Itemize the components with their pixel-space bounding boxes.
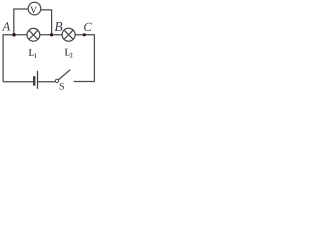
wire battery to switch	[38, 81, 55, 83]
svg-text:V: V	[30, 6, 37, 16]
voltmeter U1 circle	[28, 2, 41, 15]
wire top-left corner to lamp L1	[3, 35, 27, 82]
node A junction dot	[12, 33, 16, 37]
lamp L1 symbol	[27, 28, 40, 41]
switch S lever	[58, 70, 70, 80]
svg-text:B: B	[54, 19, 62, 34]
wire voltmeter left to corner	[14, 9, 28, 34]
svg-text:C: C	[83, 20, 92, 34]
node B junction dot	[50, 33, 53, 36]
node C junction dot	[83, 33, 86, 36]
wire switch to bottom-right corner	[74, 81, 95, 83]
svg-text:A: A	[2, 20, 11, 34]
svg-text:L1: L1	[29, 48, 37, 60]
battery BT1 long thin plate	[37, 71, 39, 89]
battery BT1 short thick plate	[33, 76, 35, 85]
wire voltmeter right to corner above B	[41, 10, 52, 34]
svg-text:L2: L2	[65, 47, 73, 59]
lamp L2 symbol	[62, 28, 75, 41]
switch S pivot circle	[55, 79, 58, 82]
wire lamp L1 to lamp L2 through node B	[40, 34, 62, 36]
svg-text:S: S	[59, 81, 65, 90]
wire lamp L2 to top-right corner	[75, 35, 94, 82]
wire bottom-left corner to battery	[3, 81, 33, 83]
